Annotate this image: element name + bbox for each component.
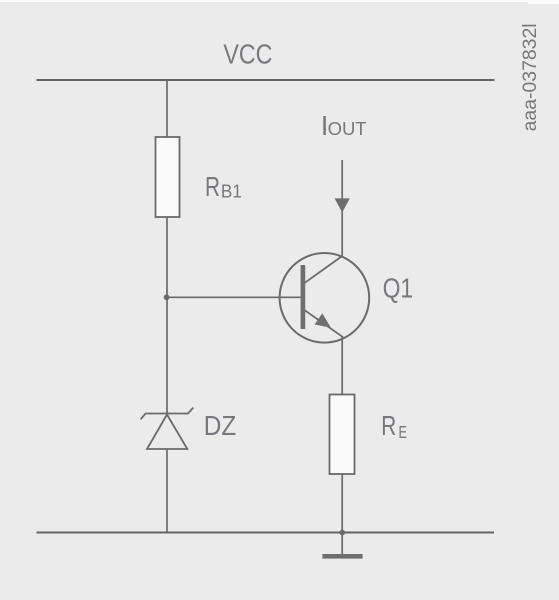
Q1 base bar [301, 265, 306, 329]
svg-text:B1: B1 [221, 180, 242, 201]
wire ground bottom rail [37, 532, 495, 534]
Q1 emitter arrowhead [315, 313, 331, 327]
Q1 body circle [280, 253, 370, 343]
DZ anode triangle [147, 415, 187, 450]
svg-text:R: R [381, 410, 396, 441]
label RE [381, 410, 407, 442]
svg-text:DZ: DZ [204, 410, 237, 441]
svg-text:aaa-037832l: aaa-037832l [519, 23, 541, 131]
Q1 emitter stroke [305, 310, 343, 337]
svg-text:OUT: OUT [328, 118, 367, 139]
ground [322, 554, 362, 559]
resistor RE [330, 395, 355, 475]
DZ cathode bar [141, 408, 194, 420]
wire DZ to bottom rail [166, 449, 168, 533]
wire RB1 to node and down to DZ [166, 217, 168, 413]
svg-text:Q1: Q1 [383, 273, 414, 304]
resistor RB1 [156, 137, 180, 217]
arrowhead IOUT current arrow [335, 198, 350, 212]
Q1 collector stroke [305, 256, 342, 283]
wire VCC top rail [37, 79, 495, 81]
label IOUT [321, 110, 367, 141]
wire rail to ground symbol [341, 533, 343, 555]
wire Q1 emitter to RE [341, 337, 343, 395]
node junction dot [164, 294, 170, 300]
svg-text:E: E [399, 422, 408, 442]
label RB1 [205, 171, 242, 202]
transistor Q1 [280, 253, 370, 343]
svg-text:VCC: VCC [223, 38, 272, 69]
wire node to Q1 base [167, 296, 301, 298]
wire IOUT collector lead [341, 160, 343, 256]
svg-text:R: R [205, 171, 220, 202]
node junction dot emitter-rail [339, 530, 345, 536]
zener diode DZ [141, 408, 194, 449]
wire VCC rail to RB1 [166, 80, 168, 138]
wire RE to bottom rail [341, 474, 343, 533]
